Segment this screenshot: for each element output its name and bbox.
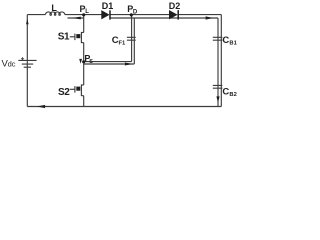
svg-text:S1: S1	[58, 31, 70, 42]
arrow right on bottom link toward C_F1	[125, 63, 132, 66]
arrow left on bottom rail	[37, 105, 45, 108]
arrow left on P_L stub line	[72, 17, 81, 20]
wire S-branch: S2 source down to bottom rail	[83, 96, 85, 107]
wire S-branch: P_S down to S2 drain	[83, 62, 85, 85]
svg-text:C: C	[222, 86, 229, 97]
transistor S1 drain stub	[81, 32, 83, 34]
wire outer right vertical	[220, 15, 222, 107]
transistor S2 drain stub	[81, 84, 83, 86]
transistor S2 gate pad (filled square)	[76, 87, 80, 91]
capacitor C_B2 plates	[213, 85, 223, 88]
transistor S1 gate lead	[70, 36, 75, 38]
svg-text:F1: F1	[119, 41, 127, 47]
transistor S2 gate lead	[70, 88, 75, 90]
transistor S1 gate bar	[74, 34, 76, 41]
transistor S1 source stub	[81, 42, 83, 44]
wire top rail left segment	[27, 14, 45, 16]
wire arrow stub line at P_L (y=18)	[68, 17, 84, 19]
diode D1 cathode bar	[109, 10, 111, 19]
wire S-branch: P_L down to S1 drain	[83, 15, 85, 33]
transistor S2 gate bar	[74, 86, 76, 93]
battery Vdc plates	[18, 60, 36, 67]
node P_S junction dot	[82, 60, 85, 63]
wire C_F1 outer lead from inner rail	[133, 18, 135, 64]
wire P_S to C_F1 bottom link	[84, 63, 135, 65]
arrow up on left wire	[26, 19, 29, 25]
svg-text:dc: dc	[8, 60, 16, 69]
svg-text:D2: D2	[169, 1, 181, 11]
wire inner rail y=18 from D1 cathode to inner right corner	[110, 17, 218, 19]
svg-text:C: C	[222, 35, 229, 46]
svg-text:L: L	[51, 3, 57, 13]
transistor S2 channel bar	[80, 84, 82, 96]
wire C_F1 inner lead from P_D	[131, 15, 133, 62]
node P_D junction dot	[130, 13, 133, 16]
transistor S1 gate pad (filled square)	[76, 34, 80, 38]
wire top rail: D2 cathode to top-right corner	[178, 14, 221, 16]
wire bottom rail	[27, 106, 221, 108]
svg-text:S: S	[89, 59, 93, 65]
wire left vertical (Vdc branch)	[26, 15, 28, 107]
capacitor C_F1 plates	[127, 37, 136, 40]
wire inner right vertical	[217, 18, 219, 107]
transistor S1 channel bar	[80, 32, 82, 43]
diode D2 cathode bar	[177, 10, 179, 20]
arrow right on inner rail near top-right corner	[206, 16, 214, 19]
svg-text:L: L	[85, 9, 89, 15]
transistor S2 source stub	[81, 95, 83, 97]
wire top rail: D1 cathode to D2 anode	[110, 14, 169, 16]
node P_L junction dot	[82, 13, 85, 16]
arrow down on inner right vertical	[216, 96, 219, 102]
diode D1	[101, 10, 109, 19]
svg-text:D1: D1	[102, 1, 114, 11]
inductor L	[46, 12, 65, 15]
wire P_S to C_F1 top link	[84, 61, 132, 63]
diode D2	[169, 10, 178, 19]
svg-text:S2: S2	[58, 87, 70, 98]
capacitor C_B1 plates	[213, 37, 223, 40]
wire top rail: inductor to D1 anode	[65, 14, 102, 16]
svg-text:B1: B1	[229, 41, 237, 47]
svg-text:D: D	[133, 10, 138, 16]
arrow down at P_S into S2	[79, 59, 82, 64]
svg-text:B2: B2	[229, 92, 236, 98]
battery plus sign	[21, 57, 24, 60]
wire S-branch: S1 source to P_S	[83, 43, 85, 62]
